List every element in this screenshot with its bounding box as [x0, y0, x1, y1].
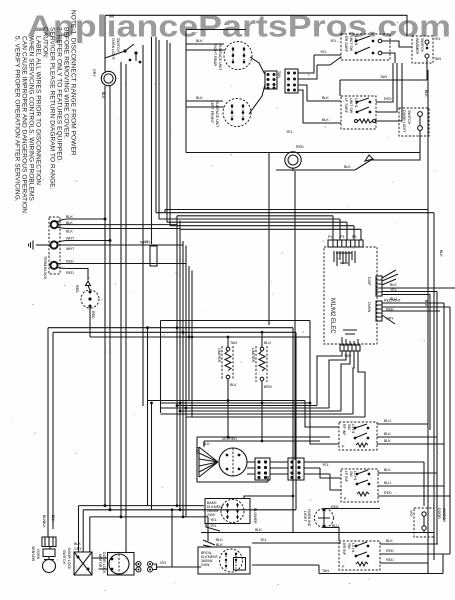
- svg-text:BLK: BLK: [196, 39, 203, 43]
- chassis ground arrow mid-right: [276, 136, 420, 170]
- svg-text:WHEN SERVICING CONTROLS. WIRIN: WHEN SERVICING CONTROLS. WIRING PROBLEMS: [28, 36, 35, 202]
- wire: switch drop long vertical: [120, 62, 122, 330]
- power column verticals to bottom-left: [105, 219, 126, 552]
- svg-text:VIO: VIO: [160, 561, 166, 565]
- ERC right connector strip 2: [367, 299, 450, 325]
- svg-text:LIMITER: LIMITER: [217, 348, 221, 363]
- svg-text:SWITCH: SWITCH: [420, 38, 424, 53]
- svg-text:BLK: BLK: [424, 90, 428, 97]
- wires into D1: [286, 39, 341, 134]
- surface indicator light (dashed circle below RED): [75, 285, 99, 337]
- terminal block: BLK terminal: [51, 221, 58, 228]
- terminal block dashed outline: [49, 217, 60, 274]
- left long pair down to fuse (H2 left turn): [42, 328, 55, 529]
- limiter 2 (mid): [227, 331, 272, 443]
- connector block CN4 (bottom centre): [270, 458, 330, 480]
- ground symbol at terminal block: [29, 241, 51, 250]
- ERC bottom connector: [340, 330, 360, 358]
- svg-text:P5: P5: [352, 235, 356, 239]
- svg-text:OVEN LIGHT: OVEN LIGHT: [111, 38, 115, 61]
- H3 horizontals (7 wires): [148, 401, 366, 445]
- svg-text:LEFT FRONT: LEFT FRONT: [210, 101, 214, 124]
- B1 vertical bundle (6 wires): [177, 216, 192, 517]
- svg-text:LF SURF: LF SURF: [344, 98, 348, 114]
- svg-text:YEL: YEL: [320, 50, 327, 54]
- top feed verticals from cooktop: [143, 37, 170, 406]
- svg-text:5. VERIFY PROPER OPERATION AFT: 5. VERIFY PROPER OPERATION AFTER SERVICI…: [14, 36, 21, 202]
- ERC internal pin cluster top: [334, 251, 355, 266]
- svg-text:L1 H1: L1 H1: [351, 543, 355, 553]
- svg-text:SURFACE UNIT: SURFACE UNIT: [218, 44, 222, 71]
- svg-text:WARMER: WARMER: [415, 38, 419, 55]
- svg-text:SWITCH: SWITCH: [62, 550, 66, 565]
- svg-text:BLK: BLK: [196, 96, 203, 100]
- oven lamp (top left): [92, 69, 116, 86]
- connector block CN3 (bottom centre): [247, 458, 270, 480]
- svg-text:P1: P1: [328, 235, 332, 239]
- svg-text:TAN: TAN: [322, 569, 329, 573]
- svg-text:RED: RED: [66, 260, 74, 264]
- svg-text:SURFACE UNIT: SURFACE UNIT: [215, 101, 219, 128]
- svg-text:OVEN: OVEN: [367, 302, 371, 313]
- svg-text:BLK: BLK: [66, 230, 73, 234]
- svg-text:BLK: BLK: [255, 528, 262, 532]
- svg-text:P3: P3: [340, 235, 344, 239]
- terminal block: WHT terminal: [50, 241, 57, 248]
- svg-text:LIMITER: LIMITER: [251, 348, 255, 363]
- svg-text:YEL: YEL: [390, 288, 397, 292]
- H4 wires above fan: [197, 437, 330, 447]
- svg-text:2. REFER ONLY TO FEATURES EQUI: 2. REFER ONLY TO FEATURES EQUIPPED.: [56, 27, 63, 163]
- svg-text:DISP: DISP: [367, 277, 371, 286]
- wires into D2: [303, 63, 402, 123]
- wires from ERC bottom down: [317, 351, 365, 417]
- svg-text:DOOR LIGHT: DOOR LIGHT: [402, 110, 406, 133]
- svg-text:L1 H1: L1 H1: [354, 36, 358, 46]
- svg-text:BLK: BLK: [230, 383, 237, 387]
- svg-text:RED: RED: [386, 308, 394, 312]
- svg-text:BLK: BLK: [439, 250, 443, 257]
- limiter 1 (mid): [217, 337, 237, 437]
- svg-text:DOOR: DOOR: [437, 508, 441, 519]
- svg-text:BLK: BLK: [384, 439, 391, 443]
- svg-text:BLK: BLK: [216, 543, 223, 547]
- svg-text:RED: RED: [75, 285, 79, 293]
- svg-text:CAN CAUSE IMPROPER AND DANGERO: CAN CAUSE IMPROPER AND DANGEROUS OPERATI…: [21, 36, 28, 215]
- ERC dashed box M1/M2 ELEC: [324, 247, 377, 344]
- svg-text:VIO: VIO: [409, 510, 413, 516]
- oven lamp 2 (middle): [285, 145, 304, 171]
- svg-text:M1/M2 ELEC: M1/M2 ELEC: [329, 298, 335, 334]
- svg-text:YEL: YEL: [144, 240, 151, 244]
- svg-text:SWITCH: SWITCH: [442, 508, 446, 523]
- svg-text:240V: 240V: [201, 563, 210, 567]
- top wire from oven light switch across top: [105, 15, 407, 36]
- svg-text:TAN: TAN: [277, 71, 281, 78]
- svg-text:UNIT SW: UNIT SW: [349, 36, 353, 52]
- surface unit assembly box: [186, 30, 293, 153]
- svg-text:RED: RED: [296, 145, 304, 149]
- svg-text:L1 H1: L1 H1: [353, 471, 357, 481]
- svg-text:BLK: BLK: [66, 221, 73, 225]
- oven indicator light (dashed circle): [303, 505, 380, 541]
- svg-text:RED/WHT: RED/WHT: [384, 299, 402, 303]
- svg-text:WHT: WHT: [66, 247, 75, 251]
- svg-text:RED: RED: [384, 97, 392, 101]
- svg-text:BLOWER: BLOWER: [253, 508, 257, 524]
- svg-text:BLK: BLK: [384, 468, 391, 472]
- infinite switch box IS2 (dashed): [320, 463, 450, 502]
- svg-text:TERM BLOCK: TERM BLOCK: [43, 256, 47, 280]
- svg-text:RF INF: RF INF: [342, 424, 346, 436]
- svg-text:YEL: YEL: [322, 463, 329, 467]
- svg-text:L1 H1: L1 H1: [354, 98, 358, 108]
- note text block (rotated service notes): [14, 10, 77, 215]
- door lock motor (circle bottom left): [92, 552, 134, 575]
- svg-text:SW: SW: [349, 471, 353, 477]
- svg-text:GRY: GRY: [92, 69, 96, 77]
- svg-text:VIO/RED: VIO/RED: [222, 437, 237, 441]
- bake element box EB1 (dashed): [205, 499, 250, 524]
- wires terminal RED fan: [57, 260, 186, 286]
- svg-text:NOTE:1. DISCONNECT RANGE FROM: NOTE:1. DISCONNECT RANGE FROM POWER: [70, 10, 77, 156]
- svg-text:SENSOR: SENSOR: [31, 546, 35, 562]
- warmer switch (dashed box D3 top right): [412, 36, 441, 63]
- svg-text:BLK: BLK: [390, 283, 397, 287]
- svg-text:YEL: YEL: [330, 39, 337, 43]
- svg-text:BLU: BLU: [384, 481, 391, 485]
- svg-text:YEL: YEL: [210, 524, 217, 528]
- svg-text:L1 H1: L1 H1: [351, 424, 355, 434]
- broil element box EB2 (dashed): [198, 508, 257, 574]
- svg-text:YEL: YEL: [210, 518, 217, 522]
- connector block CN1: [249, 57, 277, 114]
- wire: second left vertical to WHT: [109, 85, 111, 241]
- right BLK risers from top area: [424, 70, 443, 573]
- H1 bus (7 wires mid upper): [156, 210, 434, 230]
- oven door switch (dashed box bottom right): [304, 462, 446, 537]
- junction box small (left mid): [150, 246, 157, 266]
- svg-text:BRN: BRN: [264, 385, 272, 389]
- junction dots B1 bottoms: [176, 336, 194, 519]
- connector block CN2: [277, 69, 298, 93]
- svg-text:SW: SW: [347, 543, 351, 549]
- oven fuse + sensor stack (bottom left): [31, 521, 56, 573]
- svg-text:SERVICER PLEASE RETURN DIAGRAM: SERVICER PLEASE RETURN DIAGRAM TO RANGE.: [49, 27, 56, 190]
- svg-text:TAN: TAN: [380, 75, 387, 79]
- svg-text:BLK: BLK: [424, 300, 428, 307]
- svg-text:UNIT SW: UNIT SW: [349, 98, 353, 114]
- svg-text:240V: 240V: [207, 513, 216, 517]
- svg-text:BLU: BLU: [384, 419, 391, 423]
- svg-text:RED: RED: [91, 311, 95, 319]
- wire D1 to D3 and bus line y80: [340, 41, 427, 96]
- wire: lamp down to terminal block BLK: [104, 86, 106, 219]
- blower cluster boundary: [197, 445, 268, 482]
- svg-text:P: P: [342, 565, 345, 569]
- wires CN2 right to risers: [298, 55, 317, 123]
- svg-text:BLK: BLK: [42, 521, 46, 528]
- svg-text:BLK: BLK: [344, 165, 351, 169]
- H5 bottom-left horizontals: [79, 506, 297, 567]
- svg-text:OVEN: OVEN: [36, 549, 40, 560]
- svg-text:RED: RED: [384, 491, 392, 495]
- svg-text:YEL: YEL: [260, 538, 267, 542]
- svg-text:RIGHT REAR: RIGHT REAR: [213, 44, 217, 67]
- svg-text:TAN: TAN: [434, 57, 441, 61]
- terminal block: RED terminal: [50, 262, 57, 269]
- svg-text:BLK: BLK: [322, 96, 329, 100]
- right risers B2: [430, 292, 450, 555]
- ERC right connector strip 1: [367, 270, 455, 301]
- svg-text:DOOR LOCK: DOOR LOCK: [67, 548, 71, 570]
- surface unit RF (top circle): [186, 39, 252, 71]
- svg-text:P: P: [342, 445, 345, 449]
- svg-text:SW: SW: [347, 424, 351, 430]
- svg-text:LF INF: LF INF: [344, 471, 348, 483]
- svg-text:MOTOR: MOTOR: [98, 554, 102, 568]
- svg-text:BLK: BLK: [386, 539, 393, 543]
- svg-text:WHT: WHT: [66, 237, 75, 241]
- svg-text:BLK: BLK: [322, 118, 329, 122]
- bottom bus line: [319, 554, 443, 574]
- wires terminal BLK fan: [57, 215, 180, 234]
- svg-text:CAUTION:: CAUTION:: [42, 27, 49, 59]
- svg-text:BEFORE REMOVING WIRE COVER.: BEFORE REMOVING WIRE COVER.: [63, 27, 70, 139]
- svg-text:SWITCH: SWITCH: [116, 38, 120, 53]
- vertical x269 net: [268, 153, 270, 326]
- junction dots B1 x H2: [176, 326, 191, 409]
- svg-text:BLK: BLK: [51, 515, 55, 522]
- vertical net from lamp2 down to ERC region: [294, 171, 296, 460]
- svg-text:GRY: GRY: [386, 317, 394, 321]
- svg-text:AppliancePartsPros.com: AppliancePartsPros.com: [27, 9, 451, 44]
- svg-text:SWITCH: SWITCH: [407, 110, 411, 125]
- svg-text:BLK: BLK: [66, 215, 73, 219]
- svg-text:BLK: BLK: [74, 542, 81, 546]
- svg-text:BLK: BLK: [384, 432, 391, 436]
- surface unit LF (bottom circle): [186, 96, 251, 128]
- fan blower cluster (trapezoid fan-out): [195, 442, 218, 477]
- motor connector rings: [134, 561, 201, 572]
- left front surface switch (dashed box D2): [341, 96, 376, 129]
- svg-text:BLK: BLK: [101, 92, 105, 99]
- svg-text:P: P: [344, 497, 347, 501]
- convection fan motor (circle bottom centre): [219, 437, 247, 476]
- IS1 inner labels: [342, 36, 358, 569]
- svg-text:TAN: TAN: [230, 341, 237, 345]
- door light switch (dashed box, right): [293, 108, 429, 153]
- right rear surface switch (dashed box D1): [341, 34, 390, 60]
- oven light switch SW-A: [105, 15, 141, 71]
- svg-text:RED: RED: [386, 549, 394, 553]
- wire: switch drop vertical 2: [125, 64, 127, 330]
- svg-text:RR INF: RR INF: [342, 543, 346, 556]
- door lock switch (bottom left box): [62, 542, 92, 575]
- svg-text:YEL: YEL: [286, 130, 293, 134]
- H2 long horizontals: [48, 321, 311, 533]
- svg-text:RR SURF: RR SURF: [344, 36, 348, 53]
- infinite switch box IS1 (dashed): [339, 419, 444, 450]
- svg-text:LABEL ALL WIRES PRIOR TO DISCO: LABEL ALL WIRES PRIOR TO DISCONNECTION: [35, 36, 42, 185]
- ERC top connector row: [328, 216, 363, 247]
- H3 right drops into bottom-right: [0, 0, 1, 1]
- junction dots bottom-left bends: [104, 504, 123, 518]
- wires element boxes to right: [201, 495, 434, 574]
- svg-text:BLK: BLK: [216, 538, 223, 542]
- infinite switch box IS3 (dashed): [339, 539, 450, 570]
- svg-text:GRY: GRY: [74, 547, 82, 551]
- svg-text:YEL: YEL: [434, 37, 441, 41]
- svg-text:RED: RED: [66, 271, 74, 275]
- svg-text:BLU: BLU: [264, 341, 271, 345]
- svg-text:LIGHT: LIGHT: [303, 511, 307, 522]
- svg-text:RED: RED: [386, 558, 394, 562]
- wires terminal WHT fan: [57, 237, 183, 252]
